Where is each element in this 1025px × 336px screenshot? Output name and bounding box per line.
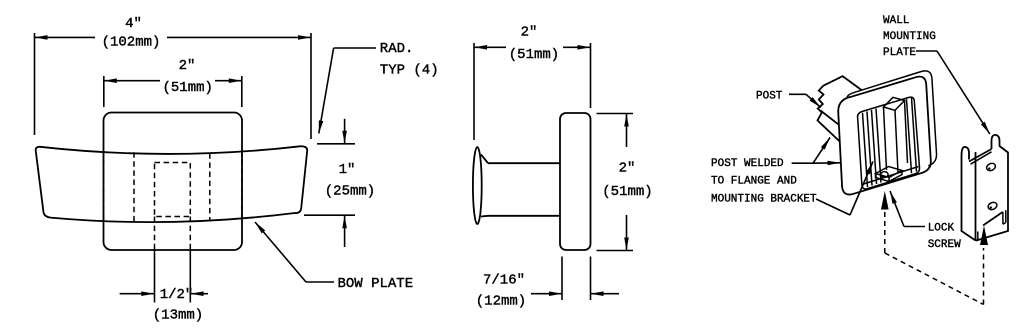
svg-text:BOW PLATE: BOW PLATE — [338, 276, 414, 292]
svg-text:(102mm): (102mm) — [102, 34, 161, 50]
svg-text:7/16": 7/16" — [483, 273, 525, 289]
svg-text:TO FLANGE AND: TO FLANGE AND — [711, 176, 797, 188]
svg-text:(12mm): (12mm) — [476, 294, 526, 310]
svg-text:PLATE: PLATE — [883, 47, 916, 59]
svg-text:POST: POST — [756, 90, 783, 102]
svg-text:2": 2" — [521, 25, 538, 41]
svg-text:4": 4" — [125, 16, 142, 32]
svg-text:2": 2" — [619, 161, 636, 177]
svg-text:(25mm): (25mm) — [325, 184, 375, 200]
svg-text:LOCK: LOCK — [928, 223, 955, 235]
svg-text:MOUNTING: MOUNTING — [883, 31, 936, 43]
svg-text:TYP (4): TYP (4) — [380, 63, 439, 79]
svg-text:1/2": 1/2" — [160, 287, 194, 303]
svg-text:SCREW: SCREW — [928, 239, 961, 251]
svg-text:2": 2" — [179, 58, 196, 74]
svg-text:POST WELDED: POST WELDED — [711, 158, 784, 170]
svg-text:RAD.: RAD. — [380, 41, 414, 57]
svg-text:(51mm): (51mm) — [162, 80, 212, 96]
svg-text:(13mm): (13mm) — [153, 308, 203, 324]
svg-text:WALL: WALL — [883, 15, 909, 27]
svg-text:MOUNTING BRACKET: MOUNTING BRACKET — [711, 193, 817, 205]
svg-text:(51mm): (51mm) — [602, 184, 652, 200]
svg-text:(51mm): (51mm) — [509, 47, 559, 63]
svg-text:1": 1" — [339, 162, 356, 178]
